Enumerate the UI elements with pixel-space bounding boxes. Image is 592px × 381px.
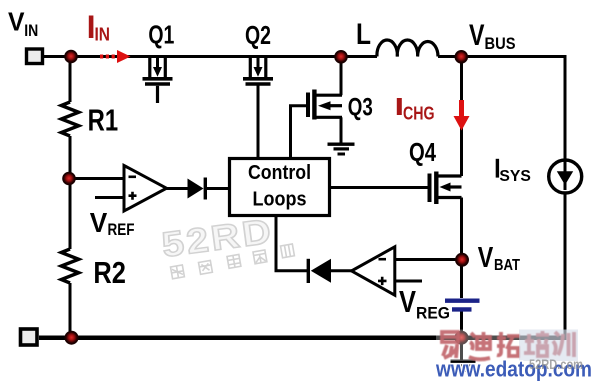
svg-text:Control: Control: [248, 162, 311, 184]
diode D2: [311, 259, 331, 283]
wire op-amp U1 output to diode D1: [166, 187, 188, 190]
svg-text:V: V: [8, 6, 25, 36]
wire V_BAT node to battery: [460, 260, 463, 298]
svg-text:Q3: Q3: [348, 93, 373, 121]
watermark bottom: 易迪拓培训 (approximated strokes): [442, 331, 574, 359]
transistor Q4: [430, 172, 462, 205]
wire R1 to node B: [69, 136, 72, 179]
svg-text:R1: R1: [88, 103, 119, 138]
svg-text:Q1: Q1: [148, 20, 174, 50]
wire top rail: [44, 55, 377, 58]
svg-text:REG: REG: [416, 304, 450, 323]
diode D1: [188, 179, 204, 199]
control loops box: [230, 159, 330, 216]
watermark 我爱研发网 (approximated strokes): [171, 244, 295, 279]
label I_IN: [89, 16, 94, 39]
node A (V_IN): [65, 51, 77, 63]
terminal square V_IN: [27, 49, 43, 64]
svg-text:Q4: Q4: [409, 137, 436, 167]
node D (V_BUS): [455, 51, 467, 63]
label I_SYS: [496, 159, 499, 178]
resistor R2: [61, 249, 78, 283]
wire node B to op-amp U1 minus input: [69, 177, 124, 180]
svg-text:52RD.com: 52RD.com: [529, 356, 583, 372]
wire diode D1 to control box: [206, 187, 229, 190]
arrow I_IN: [100, 50, 131, 63]
node V_BAT: [456, 254, 468, 266]
svg-text:BAT: BAT: [494, 257, 520, 274]
wire Q4 source down to V_BAT node: [460, 198, 463, 261]
svg-text:Loops: Loops: [253, 188, 307, 210]
wire node C down to Q3 drain: [340, 57, 343, 96]
wire right vertical to current source: [564, 55, 567, 160]
battery V_REG: [445, 299, 480, 303]
svg-text:IN: IN: [24, 21, 38, 40]
wire left vertical segment V_IN node to R1: [69, 57, 72, 103]
wire bottom rail to ground: [460, 337, 463, 360]
terminal square bottom-left: [21, 329, 38, 345]
svg-text:REF: REF: [108, 221, 135, 239]
wire battery to bottom rail: [460, 311, 463, 338]
node C (switch node): [335, 51, 347, 63]
wire control box right to Q4 gate: [331, 186, 428, 189]
watermark 52RD center: [160, 212, 276, 265]
wire bottom rail: [39, 335, 567, 340]
wire Q2 gate to control box top: [257, 85, 260, 158]
svg-text:V: V: [90, 207, 108, 238]
wire R2 to bottom rail: [69, 283, 72, 337]
wire Q3 source to ground: [340, 117, 343, 143]
inductor L: [377, 40, 438, 56]
svg-text:IN: IN: [95, 24, 111, 44]
wire V_BUS node down to Q4 drain: [460, 57, 463, 177]
current source I_SYS: [549, 160, 582, 193]
label I_CHG: [397, 98, 402, 115]
op-amp U1: [124, 166, 167, 212]
transistor Q1: [143, 57, 173, 103]
wire control box bottom to diode D2: [276, 216, 308, 271]
wire diode D2 to op-amp U2 output: [331, 269, 352, 272]
wire V_REG stub to op-amp U2 plus input: [395, 280, 422, 283]
svg-text:CHG: CHG: [403, 104, 435, 124]
wire node B to R2: [69, 179, 72, 250]
svg-text:V: V: [399, 284, 416, 319]
ground for Q3: [328, 144, 355, 154]
svg-text:Q2: Q2: [245, 20, 271, 50]
transistor Q3: [308, 90, 342, 120]
ground bottom: [451, 361, 476, 370]
wire Q3 gate to control box top: [291, 106, 308, 158]
transistor Q2: [243, 57, 273, 84]
svg-text:R2: R2: [93, 255, 126, 290]
node B (divider): [63, 173, 75, 185]
svg-text:V: V: [478, 242, 494, 274]
node bottom battery: [455, 332, 467, 344]
wire top rail right of inductor: [438, 55, 566, 58]
svg-text:L: L: [356, 18, 371, 51]
svg-text:V: V: [469, 19, 485, 52]
wire op-amp U2 minus input to V_BAT node: [395, 258, 461, 261]
wire V_REF stub to op-amp U1 plus input: [95, 196, 124, 199]
wire current source to bottom rail: [564, 193, 567, 338]
svg-text:SYS: SYS: [499, 168, 531, 185]
svg-text:BUS: BUS: [485, 35, 516, 53]
watermark washes over red chars: [436, 330, 578, 362]
node bottom-left: [65, 332, 77, 344]
op-amp U2: [352, 247, 395, 295]
arrow I_CHG: [454, 100, 470, 131]
resistor R1: [61, 102, 78, 136]
